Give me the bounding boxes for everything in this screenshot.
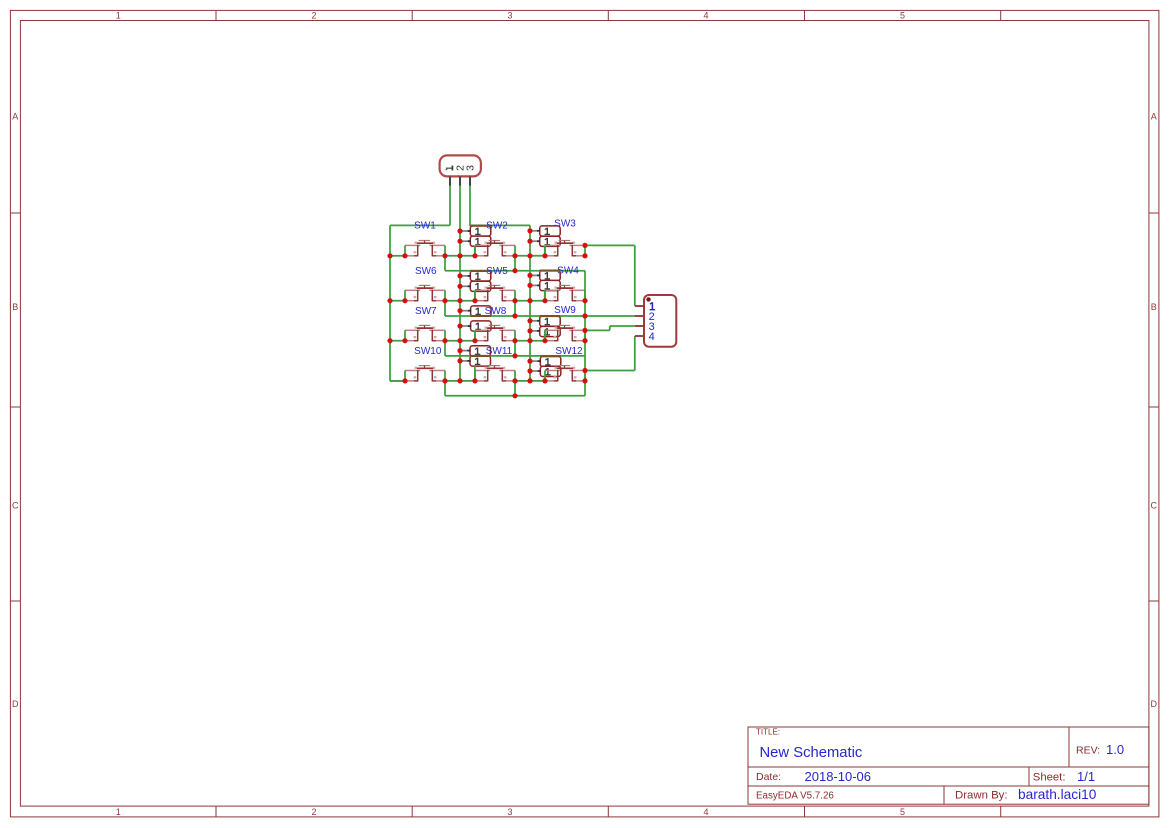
svg-text:D: D xyxy=(1151,699,1158,709)
svg-text:SW11: SW11 xyxy=(486,346,513,357)
svg-text:4: 4 xyxy=(703,11,708,21)
svg-text:New Schematic: New Schematic xyxy=(760,745,863,761)
svg-text:Drawn By:: Drawn By: xyxy=(955,789,1008,801)
svg-text:B: B xyxy=(1151,302,1157,312)
svg-text:TITLE:: TITLE: xyxy=(756,728,780,737)
svg-text:barath.laci10: barath.laci10 xyxy=(1018,787,1097,802)
svg-text:1.0: 1.0 xyxy=(1106,742,1124,757)
svg-text:2: 2 xyxy=(311,807,316,817)
svg-text:3: 3 xyxy=(465,165,477,171)
svg-text:4: 4 xyxy=(703,807,708,817)
svg-text:SW4: SW4 xyxy=(557,266,579,277)
svg-text:1: 1 xyxy=(116,807,121,817)
svg-text:A: A xyxy=(1151,112,1157,122)
svg-text:SW5: SW5 xyxy=(486,266,508,277)
svg-text:5: 5 xyxy=(900,807,905,817)
svg-text:C: C xyxy=(12,501,19,511)
svg-text:SW6: SW6 xyxy=(415,266,437,277)
svg-text:5: 5 xyxy=(900,11,905,21)
svg-text:SW8: SW8 xyxy=(485,306,507,317)
svg-text:3: 3 xyxy=(507,11,512,21)
svg-text:1: 1 xyxy=(116,11,121,21)
svg-text:SW7: SW7 xyxy=(415,306,437,317)
svg-text:EasyEDA V5.7.26: EasyEDA V5.7.26 xyxy=(756,790,834,801)
svg-text:3: 3 xyxy=(507,807,512,817)
svg-text:B: B xyxy=(12,302,18,312)
svg-text:SW12: SW12 xyxy=(555,346,583,357)
svg-text:SW3: SW3 xyxy=(554,218,576,229)
svg-text:2: 2 xyxy=(311,11,316,21)
svg-text:2018-10-06: 2018-10-06 xyxy=(805,769,872,784)
svg-text:SW9: SW9 xyxy=(554,305,576,316)
svg-text:C: C xyxy=(1151,501,1158,511)
svg-text:Sheet:: Sheet: xyxy=(1033,771,1066,783)
svg-text:REV:: REV: xyxy=(1076,744,1100,756)
svg-text:D: D xyxy=(12,699,19,709)
svg-text:A: A xyxy=(12,112,18,122)
svg-text:1/1: 1/1 xyxy=(1077,769,1095,784)
svg-text:SW10: SW10 xyxy=(414,346,442,357)
svg-text:SW2: SW2 xyxy=(486,221,508,232)
svg-text:Date:: Date: xyxy=(756,771,781,783)
svg-text:SW1: SW1 xyxy=(414,221,436,232)
svg-text:4: 4 xyxy=(649,331,655,343)
